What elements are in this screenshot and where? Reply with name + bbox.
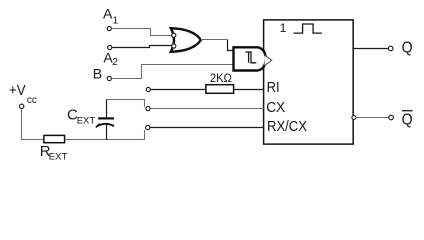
- wire terminal to resistor: [151, 89, 206, 91]
- terminal A2: [108, 45, 112, 49]
- node A2 label: [103, 49, 118, 68]
- and-gate U2 (schmitt): [234, 47, 266, 70]
- bubble on Q-bar pin: [352, 116, 356, 120]
- svg-text:EXT: EXT: [77, 116, 96, 127]
- capacitor CEXT top plate: [98, 117, 114, 119]
- wire terminal to RX/CX pin: [150, 127, 264, 129]
- svg-text:cc: cc: [27, 95, 37, 106]
- wire terminal to CX pin: [150, 108, 263, 110]
- wire RX/CX terminal down to rail: [144, 130, 146, 140]
- svg-text:1: 1: [280, 21, 287, 35]
- wire capacitor top to CX terminal: [106, 100, 145, 107]
- bubble on OR input 2: [172, 44, 176, 48]
- terminal Q-bar: [389, 115, 394, 120]
- svg-text:2: 2: [112, 57, 118, 68]
- wire A1 to OR input: [112, 29, 172, 36]
- capacitor CEXT bottom plate (curved): [97, 124, 115, 127]
- resistor REXT box: [44, 135, 65, 142]
- pulse/hysteresis symbol inside gate U2: [245, 52, 256, 63]
- terminal A1: [107, 26, 111, 30]
- terminal RX/CX row: [146, 125, 150, 129]
- svg-text:+V: +V: [9, 82, 26, 99]
- wire Q output: [353, 48, 388, 50]
- wire resistor to RI pin: [234, 89, 264, 91]
- svg-text:B: B: [93, 66, 102, 82]
- svg-text:1: 1: [113, 15, 119, 26]
- terminal RI row: [146, 87, 150, 91]
- node +Vcc label: [9, 82, 37, 106]
- terminal B: [107, 76, 111, 80]
- terminal CX row: [146, 106, 150, 110]
- edge-trigger triangle on box input: [265, 55, 272, 66]
- capacitor CEXT top lead: [106, 100, 108, 118]
- svg-text:CX: CX: [266, 100, 285, 116]
- svg-text:2KΩ: 2KΩ: [210, 71, 232, 85]
- svg-text:RI: RI: [267, 80, 280, 96]
- wire B to gate input: [112, 65, 234, 79]
- svg-text:EXT: EXT: [49, 151, 68, 162]
- wire Q-bar output: [355, 117, 389, 119]
- capacitor CEXT bottom lead: [106, 125, 108, 140]
- or-gate U1: [171, 28, 201, 52]
- svg-text:Q: Q: [402, 112, 413, 129]
- wire Vcc down to resistor: [22, 109, 44, 140]
- terminal Q: [388, 46, 393, 51]
- capacitor polarity barb: [96, 124, 100, 128]
- pulse symbol in box: [294, 24, 322, 33]
- overline of Q-bar: [402, 110, 413, 112]
- IC U1 monostable one-shot outline box: [264, 20, 354, 144]
- bubble on OR input 1: [172, 33, 176, 37]
- terminal Vcc: [20, 104, 24, 108]
- label REXT: [40, 143, 68, 162]
- wire rail resistor to junction: [65, 139, 145, 141]
- label CEXT: [67, 106, 95, 126]
- svg-text:Q: Q: [402, 39, 413, 56]
- svg-text:A: A: [103, 6, 113, 22]
- svg-text:RX/CX: RX/CX: [267, 119, 307, 135]
- resistor 2K box: [206, 85, 234, 94]
- node A1 label: [103, 6, 119, 27]
- wire A2 to OR input: [112, 46, 172, 48]
- wire OR output: [201, 39, 228, 41]
- wire OR output down into gate: [228, 40, 234, 51]
